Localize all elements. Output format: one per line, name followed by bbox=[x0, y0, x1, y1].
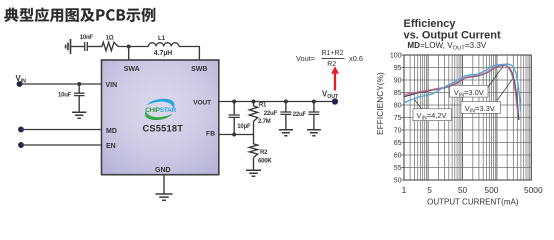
svg-text:R1+R2: R1+R2 bbox=[322, 50, 344, 57]
page title 典型应用图及PCB示例 bbox=[4, 7, 155, 22]
svg-text:50: 50 bbox=[458, 185, 468, 195]
svg-text:L1: L1 bbox=[158, 35, 166, 42]
svg-text:600K: 600K bbox=[258, 159, 272, 165]
svg-text:VIN=3.3V: VIN=3.3V bbox=[465, 104, 495, 115]
wire VIN to pin bbox=[20, 83, 102, 85]
svg-text:Vout=: Vout= bbox=[296, 54, 315, 63]
svg-text:10pF: 10pF bbox=[237, 124, 251, 130]
svg-text:GND: GND bbox=[155, 167, 171, 174]
svg-text:90: 90 bbox=[394, 77, 402, 84]
graph frame bbox=[404, 55, 531, 180]
node R1 top junction bbox=[252, 100, 256, 104]
node A (SWA junction) bbox=[127, 45, 131, 49]
wire EN bbox=[21, 144, 102, 146]
pin label MD bbox=[106, 128, 117, 135]
svg-text:75: 75 bbox=[394, 115, 402, 122]
svg-text:22uF: 22uF bbox=[293, 112, 307, 118]
wire ground to C1 bbox=[71, 46, 85, 48]
curve VIN=3.3V bbox=[404, 65, 519, 120]
callout line 4.2V bbox=[414, 99, 422, 109]
ground C4 bbox=[307, 130, 321, 136]
callout line 3.0V bbox=[487, 66, 504, 89]
VOUT red arrow bbox=[331, 66, 339, 90]
ground C3 bbox=[279, 130, 293, 136]
x axis labels bbox=[402, 185, 543, 195]
wire MD bbox=[21, 129, 102, 131]
svg-text:EN: EN bbox=[106, 143, 116, 150]
graph grid decade vertical bbox=[428, 55, 497, 180]
wire FB rail bbox=[219, 134, 254, 136]
svg-text:22uF: 22uF bbox=[264, 111, 278, 117]
capacitor C5 10pF bbox=[229, 102, 252, 135]
wire VOUT rail bbox=[219, 101, 335, 103]
curve VIN=3.0V bbox=[404, 65, 518, 113]
ground R2 bbox=[246, 170, 261, 176]
svg-text:500: 500 bbox=[484, 185, 498, 195]
svg-text:100: 100 bbox=[390, 52, 402, 59]
svg-text:SWA: SWA bbox=[124, 66, 140, 73]
svg-text:10uF: 10uF bbox=[58, 93, 72, 99]
capacitor C3 22uF bbox=[264, 102, 292, 130]
wire R3 to node A bbox=[118, 46, 149, 48]
svg-text:OUTPUT CURRENT(mA): OUTPUT CURRENT(mA) bbox=[427, 197, 519, 206]
svg-text:2.7M: 2.7M bbox=[258, 119, 271, 125]
callout line 3.3V bbox=[497, 79, 513, 101]
svg-text:5000: 5000 bbox=[524, 185, 543, 195]
svg-text:CHIPSTAR: CHIPSTAR bbox=[145, 107, 176, 114]
graph subtitle MD=LOW VOUT=3.3V bbox=[407, 41, 486, 52]
node EN terminal bbox=[18, 142, 23, 147]
node VIN/C2 junction bbox=[77, 82, 81, 86]
label box VIN=3.0V bbox=[450, 85, 489, 98]
svg-text:60: 60 bbox=[394, 152, 402, 159]
svg-text:SWB: SWB bbox=[191, 66, 207, 73]
svg-text:50: 50 bbox=[394, 177, 402, 184]
svg-text:MD=LOW, VOUT=3.3V: MD=LOW, VOUT=3.3V bbox=[407, 41, 486, 52]
svg-text:EFFICIENCY(%): EFFICIENCY(%) bbox=[376, 72, 385, 135]
pin label VIN bbox=[106, 82, 118, 89]
x axis title OUTPUT CURRENT(mA) bbox=[427, 197, 519, 206]
capacitor C1 10nF bbox=[80, 35, 94, 51]
node FB junction bbox=[232, 133, 236, 137]
svg-text:4.7µH: 4.7µH bbox=[154, 50, 173, 57]
node MD terminal bbox=[18, 127, 23, 132]
ground GND pin bbox=[156, 194, 173, 200]
Chipstar logo swoosh blue bbox=[145, 99, 177, 120]
svg-text:5: 5 bbox=[427, 185, 432, 195]
graph grid horizontal bbox=[404, 68, 531, 168]
pin label FB bbox=[206, 131, 215, 138]
inductor L1 4.7uH bbox=[149, 35, 179, 57]
pin label GND bbox=[155, 167, 171, 174]
svg-text:VIN=3.0V: VIN=3.0V bbox=[454, 88, 484, 99]
ground (snubber input) bbox=[66, 39, 71, 54]
svg-text:10nF: 10nF bbox=[80, 35, 94, 41]
pin label SWB bbox=[191, 66, 207, 73]
svg-text:VOUT: VOUT bbox=[322, 89, 339, 100]
label box VIN=4.2V bbox=[413, 109, 452, 122]
y axis title EFFICIENCY(%) bbox=[376, 72, 385, 135]
wire node A to SWA pin bbox=[128, 47, 130, 61]
resistor R3 1ohm bbox=[102, 36, 118, 51]
node C3 top junction bbox=[284, 100, 288, 104]
svg-text:65: 65 bbox=[394, 140, 402, 147]
svg-text:x0.6: x0.6 bbox=[349, 54, 363, 63]
svg-text:R2: R2 bbox=[260, 150, 268, 156]
svg-text:VIN: VIN bbox=[106, 82, 118, 89]
y axis labels bbox=[390, 52, 402, 184]
graph grid minor vertical bbox=[410, 55, 530, 180]
IC name CS5518T bbox=[142, 124, 183, 134]
capacitor C2 10uF bbox=[58, 84, 85, 112]
wire L1 to SWB pin bbox=[179, 47, 200, 61]
ground C2 bbox=[72, 112, 86, 118]
svg-text:R2: R2 bbox=[327, 61, 336, 68]
IC U1 CS5518T body bbox=[102, 60, 219, 175]
svg-text:MD: MD bbox=[106, 128, 117, 135]
svg-text:1Ω: 1Ω bbox=[106, 36, 114, 42]
graph title Efficiency bbox=[404, 18, 502, 42]
net label VOUT bbox=[322, 89, 339, 100]
curve VIN=4.2V bbox=[404, 64, 521, 111]
svg-text:70: 70 bbox=[394, 127, 402, 134]
svg-text:VOUT: VOUT bbox=[193, 99, 211, 106]
formula Vout=(R1+R2)/R2 x0.6 bbox=[296, 50, 363, 68]
pin label EN bbox=[106, 143, 116, 150]
pin label VOUT bbox=[193, 99, 211, 106]
svg-text:85: 85 bbox=[394, 90, 402, 97]
node C4 top junction bbox=[312, 100, 316, 104]
graph axis ticks left bbox=[402, 55, 405, 180]
node C5 top junction bbox=[232, 100, 236, 104]
pin label SWA bbox=[124, 66, 140, 73]
svg-text:VIN=4,2V: VIN=4,2V bbox=[417, 111, 447, 122]
svg-text:1: 1 bbox=[402, 185, 407, 195]
svg-text:vs. Output Current: vs. Output Current bbox=[404, 30, 502, 42]
node VIN terminal bbox=[17, 81, 22, 86]
svg-text:55: 55 bbox=[394, 165, 402, 172]
svg-text:CS5518T: CS5518T bbox=[142, 124, 183, 134]
svg-text:R1: R1 bbox=[259, 102, 267, 108]
label box VIN=3.3V bbox=[461, 102, 501, 115]
svg-text:80: 80 bbox=[394, 102, 402, 109]
resistor R2 600K bbox=[249, 135, 272, 171]
svg-text:FB: FB bbox=[206, 131, 215, 138]
wire GND pin down bbox=[163, 175, 165, 194]
svg-text:Efficiency: Efficiency bbox=[404, 18, 457, 30]
wire C1 to R3 bbox=[87, 46, 102, 48]
resistor R1 2.7M bbox=[249, 102, 270, 135]
capacitor C4 22uF bbox=[293, 102, 320, 130]
node VOUT terminal bbox=[332, 99, 338, 105]
Chipstar logo swoosh green bbox=[145, 110, 173, 120]
svg-text:95: 95 bbox=[394, 65, 402, 72]
net label VIN bbox=[16, 74, 27, 85]
